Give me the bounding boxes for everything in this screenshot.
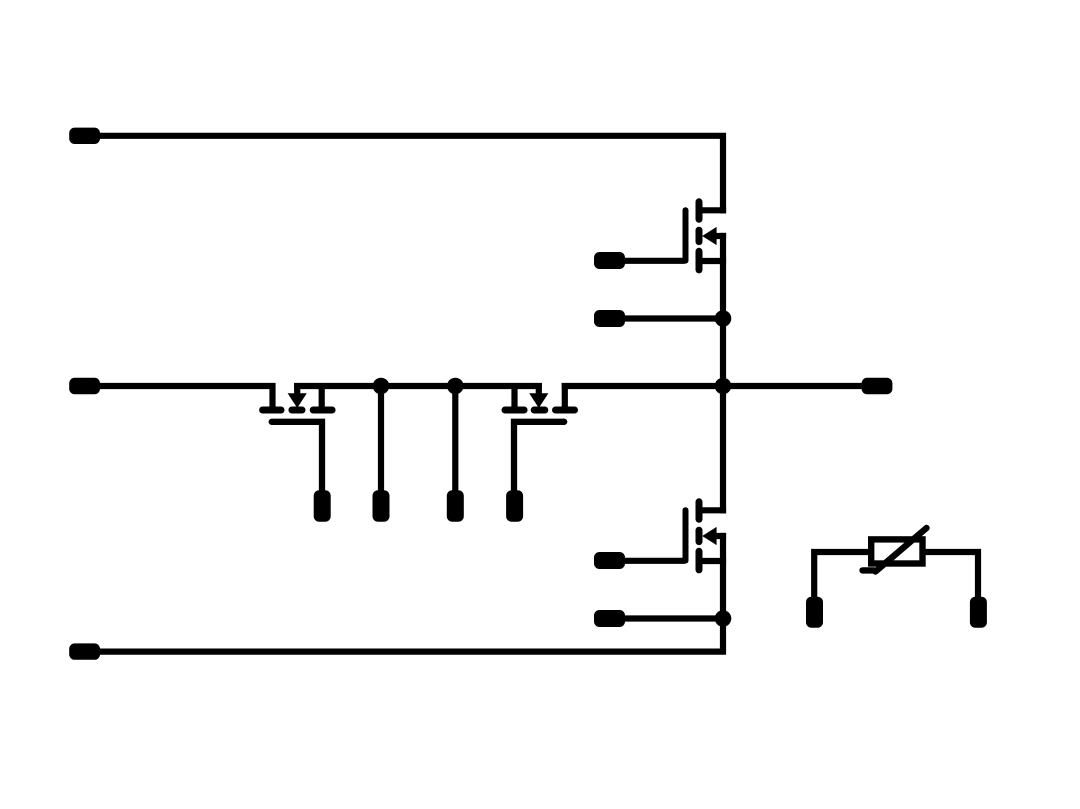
transistor Q1: [686, 202, 727, 270]
wire top rail: [97, 136, 723, 214]
terminal P10: [594, 552, 625, 569]
wire P11 to Q2 source node: [620, 615, 723, 621]
wire stub to P6: [378, 386, 384, 495]
node junction Q2 source: [715, 610, 732, 627]
terminal P1: [69, 128, 100, 144]
node junction mid rail: [715, 378, 732, 395]
varistor RV1: [863, 528, 927, 572]
wire stub to P7: [452, 386, 458, 495]
wire mid rail right: [562, 383, 862, 389]
wire Q1 source to mid rail: [720, 233, 726, 386]
terminal P13: [806, 597, 823, 628]
terminal P7: [447, 490, 464, 521]
node junction Q1 source: [715, 310, 732, 327]
terminal P8: [506, 490, 523, 521]
wire P3 to Q1 source node: [620, 315, 723, 321]
terminal P5: [314, 490, 331, 521]
wire Q2 source to bottom rail: [97, 533, 723, 652]
terminal P14: [970, 597, 987, 628]
wire RV1 left lead: [814, 552, 871, 598]
node junction stub P7: [447, 378, 464, 395]
terminal P4: [69, 378, 100, 394]
wire Q4 gate: [514, 422, 564, 495]
wire RV1 right lead: [923, 552, 978, 598]
transistor Q4: [505, 383, 575, 410]
terminal P2: [594, 252, 625, 269]
terminal P3: [594, 310, 625, 327]
wire mid node to Q2 drain: [720, 386, 726, 513]
wire Q1 gate: [620, 258, 685, 264]
node junction stub P6: [373, 378, 390, 395]
wire mid rail left: [97, 386, 273, 408]
wire Q2 gate: [620, 558, 685, 564]
terminal P6: [373, 490, 390, 521]
transistor Q3: [263, 383, 333, 410]
terminal P11: [594, 610, 625, 627]
transistor Q2: [686, 502, 727, 570]
wire Q3 gate: [272, 422, 322, 495]
terminal P9: [862, 378, 893, 394]
terminal P12: [69, 643, 100, 659]
wire mid rail center: [294, 383, 542, 389]
